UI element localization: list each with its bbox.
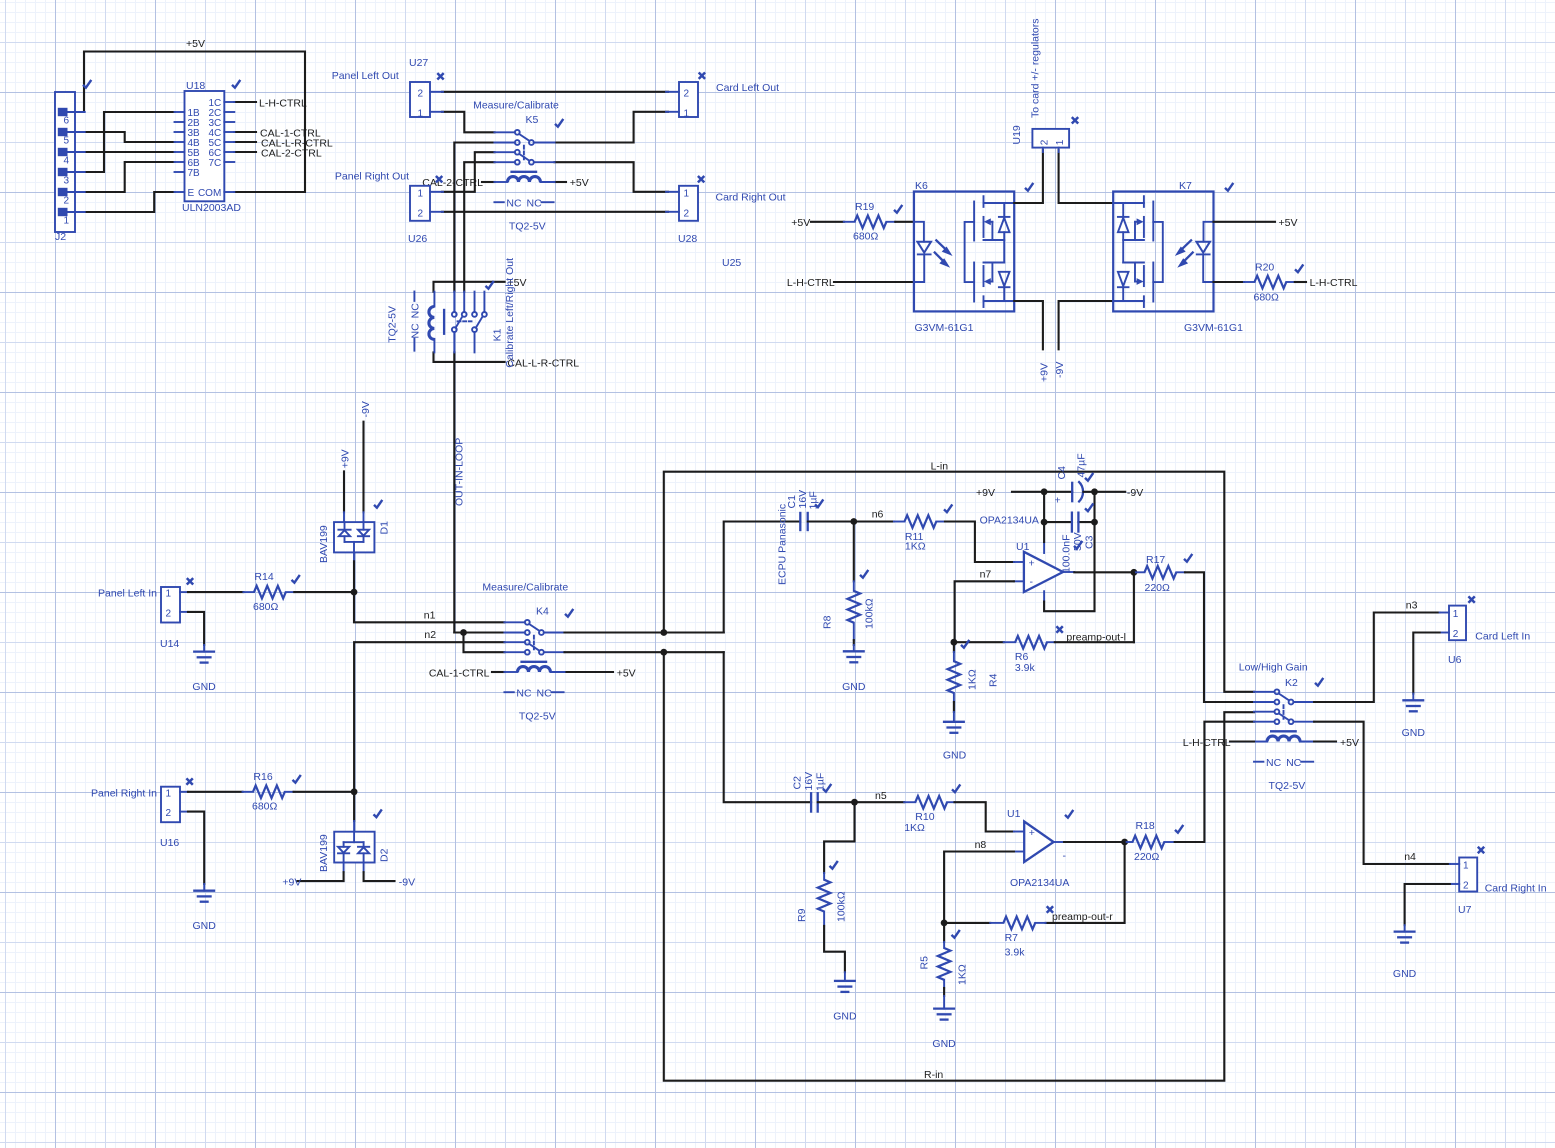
svg-text:1: 1 (417, 108, 423, 119)
wire K4 row4 blade to C2 branch (565, 651, 724, 653)
wire n1 to K4 row1 (354, 592, 504, 622)
svg-text:2: 2 (63, 196, 69, 207)
svg-text:U19: U19 (1011, 125, 1023, 144)
node preamp-out-l (1056, 626, 1062, 632)
svg-text:OUT-IN-LOOP: OUT-IN-LOOP (454, 438, 466, 506)
svg-text:R14: R14 (254, 571, 273, 583)
svg-text:GND: GND (932, 1038, 956, 1050)
svg-text:+9V: +9V (1038, 363, 1050, 382)
wire K7 source to -9V (1059, 301, 1114, 349)
resistor R20 680R (1244, 262, 1303, 304)
wire CAL-2-CTRL to K5 coil (482, 181, 495, 183)
resistor R11 1K (894, 504, 952, 552)
wire n7 node to R6 (954, 641, 1004, 643)
svg-text:+5V: +5V (1279, 217, 1298, 229)
node n1 junction (351, 589, 358, 596)
wire U19.1 to K7 (1059, 150, 1114, 203)
node preamp-out-r (1047, 906, 1053, 912)
svg-text:U27: U27 (409, 57, 428, 69)
svg-text:+9V: +9V (340, 449, 352, 468)
wire n2 to K4 row3 (354, 642, 504, 792)
wire J2.2 to U18 6B (84, 162, 175, 192)
node junction (660, 629, 667, 636)
wire R-in loop (664, 652, 1254, 1080)
svg-text:n8: n8 (975, 839, 987, 851)
svg-text:100kΩ: 100kΩ (864, 598, 876, 629)
wire J2.3 to U18 1B (84, 112, 175, 172)
svg-text:1: 1 (63, 216, 69, 227)
ground (943, 722, 967, 762)
wire L-in loop (664, 472, 1254, 692)
svg-text:n7: n7 (980, 569, 992, 581)
node out junction (1121, 839, 1128, 846)
wire R18 to K2 row4 (1175, 722, 1254, 842)
wire L-H-CTRL to K2 coil (1230, 740, 1254, 742)
svg-text:680Ω: 680Ω (253, 601, 279, 613)
node n8 junction (941, 920, 948, 927)
wire R20 to L-H-CTRL (1295, 281, 1306, 283)
node junction -9V/V- (1091, 488, 1098, 495)
op-amp U1 OPA2134UA (left channel) (980, 515, 1075, 602)
svg-text:2: 2 (417, 208, 423, 219)
op-amp driver IC U18 ULN2003AD (175, 80, 242, 214)
svg-text:2: 2 (166, 808, 172, 819)
svg-text:Panel Right In: Panel Right In (91, 787, 157, 799)
svg-text:TQ2-5V: TQ2-5V (386, 306, 398, 343)
svg-text:1: 1 (417, 188, 423, 199)
svg-text:Card Right In: Card Right In (1485, 882, 1547, 894)
svg-text:U1: U1 (1007, 808, 1021, 820)
node n5 junction (851, 799, 858, 806)
connector U7 (1450, 847, 1547, 916)
svg-text:680Ω: 680Ω (252, 801, 278, 813)
resistor R19 680R (844, 201, 903, 243)
wire U14.2 to GND (188, 612, 204, 645)
wire U27.2 to U25.2 (442, 91, 668, 93)
resistor R9 100k (796, 802, 855, 972)
svg-text:1: 1 (166, 589, 172, 600)
svg-text:1KΩ: 1KΩ (904, 822, 925, 834)
wire K5 pole1 blade to U25.1 (555, 112, 669, 143)
svg-text:preamp-out-l: preamp-out-l (1066, 632, 1126, 644)
diode D2 BAV199 (282, 792, 415, 889)
wire U6.2 to GND (1413, 633, 1439, 694)
wire K7 to R20 (1214, 281, 1244, 283)
svg-text:100.0nF: 100.0nF (1061, 534, 1073, 573)
svg-text:5: 5 (63, 136, 69, 147)
wire K4 coil to +5V (565, 671, 614, 673)
optocoupler relay K6 G3VM-61G1 (914, 180, 1033, 334)
ground (1393, 925, 1417, 980)
svg-text:2: 2 (417, 88, 423, 99)
svg-text:+5V: +5V (617, 667, 636, 679)
connector J2 (55, 80, 91, 243)
svg-text:680Ω: 680Ω (853, 231, 879, 243)
wire R14 to D1 junction (294, 591, 354, 593)
svg-text:ECPU Panasonic: ECPU Panasonic (777, 504, 789, 585)
svg-text:L-H-CTRL: L-H-CTRL (1310, 277, 1358, 289)
wire K5 row4 contact to K1 (464, 162, 494, 291)
resistor R4 1K (948, 640, 1000, 722)
svg-text:+9V: +9V (976, 487, 995, 499)
wire n8 feedback to op-amp - (944, 852, 1014, 923)
svg-text:3.9k: 3.9k (1005, 947, 1026, 959)
svg-text:GND: GND (833, 1011, 857, 1023)
svg-text:1µF: 1µF (814, 773, 826, 791)
svg-text:CAL-2-CTRL: CAL-2-CTRL (261, 148, 322, 160)
wire L-H-CTRL to K6 (834, 281, 914, 283)
connector U28 (666, 176, 786, 245)
diode D1 BAV199 (318, 401, 391, 592)
svg-text:1KΩ: 1KΩ (957, 964, 969, 985)
svg-text:GND: GND (842, 681, 866, 693)
wire U27.1 to K5 pole1 input (442, 112, 495, 133)
wire K1 blade to OUT-IN-LOOP (453, 352, 455, 632)
svg-text:220Ω: 220Ω (1134, 851, 1160, 863)
svg-text:680Ω: 680Ω (1254, 292, 1280, 304)
op-amp U1 OPA2134UA (right channel) (1007, 808, 1073, 889)
svg-text:U6: U6 (1448, 654, 1462, 666)
svg-text:1: 1 (166, 788, 172, 799)
svg-text:Calibrate Left/Right Out: Calibrate Left/Right Out (504, 258, 516, 368)
svg-text:R9: R9 (796, 908, 808, 922)
node junction +9V/V+ (1041, 488, 1048, 495)
node n7 junction (951, 639, 958, 646)
capacitor C2 1uF (792, 772, 832, 813)
resistor R14 680R (243, 571, 299, 613)
svg-text:GND: GND (1402, 727, 1426, 739)
svg-text:+: + (1055, 495, 1061, 507)
wire U18 1C to L-H-CTRL (234, 101, 256, 103)
svg-text:Measure/Calibrate: Measure/Calibrate (482, 582, 568, 594)
relay K1 (rotated) (386, 258, 516, 368)
ground (192, 645, 216, 693)
relay K4 (482, 582, 573, 723)
connector U25 (666, 73, 779, 270)
svg-text:GND: GND (193, 920, 217, 932)
svg-text:-9V: -9V (360, 401, 372, 417)
svg-text:L-H-CTRL: L-H-CTRL (787, 277, 835, 289)
svg-text:+: + (1029, 827, 1035, 839)
wire K7 to +5V (1214, 221, 1276, 223)
svg-text:U7: U7 (1458, 904, 1472, 916)
wire K5 pole2 blade to U28.1 (555, 162, 669, 192)
svg-text:100kΩ: 100kΩ (836, 891, 848, 922)
svg-text:3.9k: 3.9k (1015, 662, 1036, 674)
node n2 junction (351, 788, 358, 795)
svg-text:1KΩ: 1KΩ (905, 541, 926, 553)
svg-text:CAL-2-CTRL: CAL-2-CTRL (422, 177, 483, 189)
wire K1 coil to CAL-L-R-CTRL (434, 352, 505, 362)
svg-text:R4: R4 (988, 673, 1000, 687)
wire K5 coil to +5V (555, 181, 567, 183)
svg-text:+5V: +5V (791, 217, 810, 229)
svg-text:U18: U18 (186, 80, 205, 92)
wire U26.1 to K5 pole2 input (442, 152, 495, 192)
svg-text:Panel Left Out: Panel Left Out (332, 70, 399, 82)
wire junction to K4 row4 (464, 633, 505, 653)
wire power drops (1043, 492, 1045, 542)
svg-text:47µF: 47µF (1076, 453, 1088, 477)
svg-text:+5V: +5V (186, 38, 205, 50)
wire op-amp out to R18 (1064, 841, 1125, 843)
connector U16 (160, 778, 193, 849)
svg-text:+9V: +9V (282, 876, 301, 888)
svg-text:OPA2134UA: OPA2134UA (1010, 877, 1069, 889)
svg-text:n3: n3 (1406, 600, 1418, 612)
svg-text:K1: K1 (492, 328, 504, 341)
svg-text:2: 2 (1453, 629, 1459, 640)
resistor R18 220R (1125, 820, 1184, 863)
svg-text:R18: R18 (1136, 820, 1155, 832)
svg-text:U25: U25 (722, 257, 741, 269)
svg-text:D2: D2 (379, 848, 391, 862)
svg-text:n1: n1 (424, 610, 436, 622)
svg-text:2: 2 (166, 608, 172, 619)
svg-text:COM: COM (198, 188, 221, 199)
connector U14 (160, 578, 193, 650)
svg-text:1: 1 (1055, 139, 1066, 145)
wire U18 6C to CAL-2-CTRL (234, 151, 256, 153)
wire feedback down to R6 node (1133, 572, 1135, 642)
wire n7 feedback to op-amp - (955, 581, 1014, 642)
svg-text:C2: C2 (792, 776, 804, 790)
svg-text:Card Right Out: Card Right Out (716, 192, 786, 204)
svg-text:6: 6 (63, 116, 69, 127)
wire R17 to K2 row2 (1185, 572, 1254, 702)
wire +5V to R19 (811, 221, 844, 223)
svg-text:NC: NC (410, 323, 422, 339)
ground (833, 972, 857, 1022)
svg-text:n5: n5 (875, 790, 887, 802)
svg-text:U1: U1 (1016, 541, 1030, 553)
wire U18 4C to CAL-1-CTRL (234, 131, 256, 133)
ground (1402, 694, 1426, 739)
svg-text:-: - (1030, 576, 1034, 588)
wire R6 to feedback corner (1055, 641, 1134, 643)
svg-text:G3VM-61G1: G3VM-61G1 (1184, 322, 1243, 334)
wire C4 to -9V (1084, 491, 1126, 493)
svg-text:+5V: +5V (1340, 737, 1359, 749)
wire U26.2 to U28.2 (442, 211, 668, 213)
svg-text:Panel Left In: Panel Left In (98, 588, 157, 600)
wire K6 source to +9V (1014, 301, 1043, 349)
svg-text:Measure/Calibrate: Measure/Calibrate (473, 100, 559, 112)
wire J2.1 to U18 E (84, 192, 175, 212)
wire U16.2 to GND (188, 812, 204, 884)
relay K5 (473, 100, 563, 233)
ground (193, 884, 217, 932)
svg-text:Low/High Gain: Low/High Gain (1239, 662, 1308, 674)
wire C1 to n6 (808, 520, 854, 522)
node n6 junction (850, 518, 857, 525)
svg-text:n2: n2 (424, 629, 436, 641)
svg-text:BAV199: BAV199 (318, 834, 330, 872)
wire +9V rail (1012, 491, 1072, 493)
svg-text:2: 2 (1040, 139, 1051, 145)
svg-text:C4: C4 (1056, 466, 1068, 480)
node out junction (1131, 569, 1138, 576)
svg-text:1: 1 (1463, 861, 1469, 872)
wire K2 coil to +5V (1314, 740, 1336, 742)
wire +5V to K1 coil (434, 282, 505, 292)
capacitor C3 100nF (1044, 503, 1095, 573)
svg-text:Card Left In: Card Left In (1475, 631, 1530, 643)
svg-text:NC: NC (410, 303, 422, 319)
svg-text:R20: R20 (1255, 262, 1274, 274)
node junction (660, 649, 667, 656)
svg-text:BAV199: BAV199 (318, 525, 330, 563)
node junction C3 right (1091, 519, 1098, 526)
svg-text:U14: U14 (160, 638, 179, 650)
wire K5 row2 contact to K1 (454, 143, 494, 292)
ground (932, 1009, 956, 1050)
svg-text:4: 4 (63, 156, 69, 167)
wire R10 to op-amp + (955, 802, 1014, 831)
optocoupler relay K7 G3VM-61G1 (1113, 180, 1243, 334)
wire C1 branch (724, 522, 801, 633)
wire K2 row4 blade to n4 (1314, 722, 1450, 864)
connector U27 (332, 57, 444, 119)
svg-text:K5: K5 (526, 114, 539, 126)
resistor R8 100k (822, 522, 876, 646)
wire U14.1 to R14 (188, 591, 243, 593)
ground (842, 645, 866, 693)
node junction (460, 629, 467, 636)
wire R19 to K6 (895, 221, 914, 223)
connector U19 (1011, 18, 1078, 152)
wire U18 5C to CAL-L-R-CTRL (234, 141, 256, 143)
svg-text:1KΩ: 1KΩ (967, 669, 979, 690)
svg-text:n6: n6 (872, 509, 884, 521)
svg-text:D1: D1 (379, 521, 391, 535)
svg-text:R5: R5 (919, 956, 931, 970)
svg-text:Card Left Out: Card Left Out (716, 82, 779, 94)
svg-text:-9V: -9V (1054, 362, 1066, 378)
connector U26 (335, 171, 443, 246)
wire J2.4 to U18 5B (84, 151, 175, 153)
wire U16.1 to R16 (188, 791, 243, 793)
svg-text:R8: R8 (822, 615, 834, 629)
svg-text:GND: GND (943, 750, 967, 762)
wire C2 to n5 (818, 801, 855, 803)
capacitor C1 1uF (777, 490, 824, 585)
svg-text:3: 3 (63, 176, 69, 187)
svg-text:K4: K4 (536, 606, 549, 618)
wire op-amp out to R17 (1074, 571, 1134, 573)
svg-text:OPA2134UA: OPA2134UA (980, 515, 1039, 527)
wire R16 to D2 junction (294, 791, 355, 793)
wire C2 branch (724, 652, 811, 802)
svg-text:To card +/- regulators: To card +/- regulators (1030, 18, 1042, 118)
svg-text:CAL-L-R-CTRL: CAL-L-R-CTRL (507, 357, 579, 369)
resistor R10 1K (904, 784, 960, 834)
wire J2.5 to U18 4B (84, 132, 175, 142)
svg-text:-9V: -9V (1127, 487, 1143, 499)
svg-text:U16: U16 (160, 837, 179, 849)
svg-text:K7: K7 (1179, 180, 1192, 192)
wire K6 drain to U19.2 (1014, 150, 1043, 203)
svg-text:-: - (1063, 850, 1067, 862)
svg-text:1: 1 (684, 188, 690, 199)
wire n6 to R11 (854, 520, 894, 522)
svg-text:L-H-CTRL: L-H-CTRL (259, 98, 307, 110)
svg-text:220Ω: 220Ω (1145, 582, 1171, 594)
wire OUT-IN-LOOP to K4 row2 (454, 631, 504, 633)
wire +5V rail J2.6 to COM (84, 52, 305, 193)
svg-text:J2: J2 (55, 231, 66, 243)
resistor R17 220R (1134, 554, 1192, 594)
wire K2 row2 blade to n3 (1314, 613, 1440, 703)
svg-text:+: + (1029, 558, 1035, 570)
svg-text:2: 2 (684, 88, 690, 99)
svg-text:R-in: R-in (924, 1069, 943, 1081)
svg-text:2: 2 (1463, 881, 1469, 892)
svg-text:GND: GND (192, 681, 216, 693)
resistor R5 1K (919, 923, 969, 1009)
svg-text:7C: 7C (209, 158, 222, 169)
resistor R6 3.9k (1004, 636, 1055, 674)
wire U7.2 to GND (1405, 884, 1450, 925)
svg-text:1: 1 (1453, 609, 1459, 620)
svg-text:+5V: +5V (570, 177, 589, 189)
svg-text:K2: K2 (1285, 677, 1298, 689)
svg-text:7B: 7B (188, 168, 201, 179)
svg-text:U28: U28 (678, 233, 697, 245)
svg-text:L-H-CTRL: L-H-CTRL (1183, 737, 1231, 749)
svg-text:-9V: -9V (399, 876, 415, 888)
svg-text:n4: n4 (1404, 851, 1416, 863)
capacitor C4 47uF (1055, 453, 1094, 506)
wire n5 to R10 (855, 801, 905, 803)
svg-text:K6: K6 (915, 180, 928, 192)
wire CAL-1-CTRL to K4 coil (492, 671, 504, 673)
svg-text:GND: GND (1393, 968, 1417, 980)
svg-text:R16: R16 (253, 771, 272, 783)
svg-text:U26: U26 (408, 233, 427, 245)
svg-text:R7: R7 (1005, 932, 1019, 944)
node junction C3 left (1041, 519, 1048, 526)
resistor R16 680R (243, 771, 301, 813)
svg-text:G3VM-61G1: G3VM-61G1 (915, 322, 974, 334)
svg-text:ULN2003AD: ULN2003AD (182, 202, 241, 214)
svg-text:1: 1 (684, 108, 690, 119)
wire op-amp power feedback loop to -9V column (1044, 522, 1094, 611)
svg-text:R19: R19 (855, 201, 874, 213)
resistor R7 3.9k (944, 917, 1046, 959)
wire feedback down to R7 (1046, 842, 1125, 923)
svg-text:2: 2 (684, 208, 690, 219)
svg-text:Panel Right Out: Panel Right Out (335, 171, 409, 183)
svg-text:L-in: L-in (931, 461, 949, 473)
wire R11 to op-amp + (945, 522, 1014, 563)
svg-text:R17: R17 (1146, 554, 1165, 566)
svg-text:CAL-1-CTRL: CAL-1-CTRL (429, 667, 490, 679)
wire K4 row2 blade to L-in loop (565, 631, 724, 633)
svg-text:preamp-out-r: preamp-out-r (1052, 911, 1113, 923)
relay K2 (1239, 662, 1324, 793)
connector U6 (1440, 596, 1531, 666)
svg-text:E: E (188, 188, 195, 199)
